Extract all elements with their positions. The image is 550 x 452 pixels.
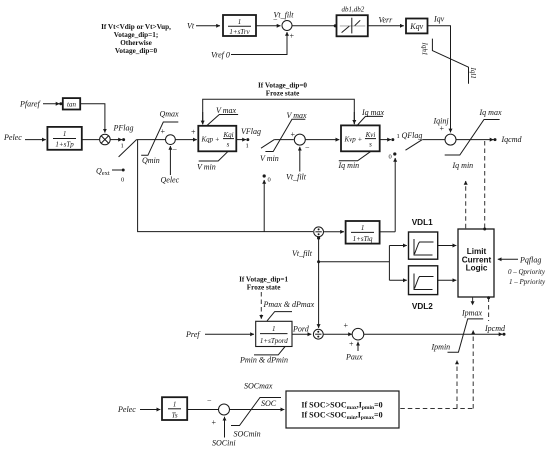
svg-text:Froze state: Froze state	[247, 284, 281, 292]
svg-text:0: 0	[121, 177, 124, 184]
svg-text:1: 1	[63, 130, 67, 138]
svg-text:−: −	[305, 143, 310, 152]
svg-text:Pmin & dPmin: Pmin & dPmin	[239, 356, 288, 365]
svg-text:Pelec: Pelec	[117, 405, 136, 414]
svg-text:Froze state: Froze state	[266, 90, 300, 98]
svg-text:V min: V min	[260, 154, 279, 163]
svg-text:−: −	[207, 396, 212, 405]
svg-text:Ipcmd: Ipcmd	[484, 324, 506, 333]
svg-text:db1,db2: db1,db2	[342, 6, 365, 14]
svg-text:Iq max: Iq max	[361, 108, 384, 117]
svg-text:+: +	[343, 321, 348, 330]
svg-text:Qmax: Qmax	[160, 110, 180, 119]
svg-text:1: 1	[272, 325, 276, 333]
svg-text:Vt: Vt	[187, 22, 195, 31]
svg-text:Vt_filt: Vt_filt	[286, 173, 307, 182]
svg-text:Qmin: Qmin	[142, 156, 160, 165]
svg-text:PFlag: PFlag	[113, 124, 134, 133]
svg-text:1: 1	[361, 224, 365, 232]
svg-text:Ipmax: Ipmax	[461, 308, 482, 317]
svg-text:1: 1	[238, 18, 242, 26]
svg-text:Kqv: Kqv	[409, 22, 423, 31]
svg-text:Iqcmd: Iqcmd	[501, 135, 523, 144]
svg-text:SOCmin: SOCmin	[234, 430, 261, 439]
svg-text:VDL1: VDL1	[412, 218, 433, 227]
svg-text:1+sTp: 1+sTp	[55, 141, 74, 149]
svg-text:1+sTrv: 1+sTrv	[229, 28, 250, 36]
svg-text:V max: V max	[216, 106, 237, 115]
svg-text:+: +	[439, 124, 444, 133]
svg-text:Pmax & dPmax: Pmax & dPmax	[263, 300, 315, 309]
svg-text:Iqh1: Iqh1	[421, 42, 429, 56]
svg-text:Pqflag: Pqflag	[519, 256, 541, 265]
svg-text:0: 0	[389, 154, 392, 161]
svg-text:Ipmin: Ipmin	[431, 343, 451, 352]
svg-text:Vt_filt: Vt_filt	[292, 249, 313, 258]
svg-text:+: +	[290, 130, 295, 139]
svg-text:0 – Qpriority: 0 – Qpriority	[508, 268, 546, 276]
svg-text:QFlag: QFlag	[402, 131, 423, 140]
svg-text:Iq min: Iq min	[452, 161, 474, 170]
svg-text:Pfaref: Pfaref	[19, 99, 41, 108]
svg-text:Verr: Verr	[379, 16, 394, 25]
svg-text:Kvi: Kvi	[365, 131, 376, 139]
svg-text:0: 0	[268, 177, 271, 184]
svg-text:1: 1	[397, 133, 400, 140]
svg-text:Kqp +: Kqp +	[201, 136, 220, 144]
svg-text:+: +	[349, 340, 354, 349]
svg-text:Votage_dip=0: Votage_dip=0	[115, 47, 158, 55]
svg-text:Qelec: Qelec	[161, 176, 180, 185]
svg-text:Kqi: Kqi	[222, 131, 233, 139]
svg-text:Pref: Pref	[185, 330, 201, 339]
svg-text:VDL2: VDL2	[412, 302, 433, 311]
svg-text:If Votage_dip=0: If Votage_dip=0	[258, 82, 307, 90]
svg-text:If Votage_dip=1: If Votage_dip=1	[239, 276, 288, 284]
svg-text:s: s	[227, 141, 230, 149]
svg-text:tan: tan	[67, 100, 76, 108]
svg-text:Kvp +: Kvp +	[344, 136, 363, 144]
svg-text:Pord: Pord	[292, 325, 310, 334]
svg-text:Iql1: Iql1	[469, 67, 477, 79]
svg-text:−: −	[273, 16, 278, 25]
svg-text:+: +	[191, 128, 196, 137]
svg-text:1 – Ppriority: 1 – Ppriority	[509, 278, 546, 286]
svg-text:1: 1	[173, 401, 177, 409]
svg-text:+: +	[289, 32, 294, 41]
svg-text:Iq min: Iq min	[338, 161, 360, 170]
svg-text:VFlag: VFlag	[241, 127, 261, 136]
svg-text:Iq max: Iq max	[479, 108, 502, 117]
svg-text:1+sTiq: 1+sTiq	[353, 235, 373, 243]
svg-text:Pelec: Pelec	[3, 133, 22, 142]
svg-text:Otherwise: Otherwise	[120, 39, 152, 47]
svg-text:SOCini: SOCini	[212, 439, 236, 448]
svg-text:Ts: Ts	[172, 412, 178, 420]
svg-text:V max: V max	[287, 111, 308, 120]
svg-text:−: −	[172, 146, 177, 155]
svg-text:SOCmax: SOCmax	[244, 382, 273, 391]
svg-text:s: s	[369, 141, 372, 149]
svg-text:Votage_dip=1;: Votage_dip=1;	[114, 31, 159, 39]
svg-text:1+sTpord: 1+sTpord	[260, 337, 288, 345]
svg-text:1: 1	[246, 143, 249, 150]
svg-text:If Vt<Vdip or Vt>Vup,: If Vt<Vdip or Vt>Vup,	[101, 23, 171, 31]
svg-text:Iqv: Iqv	[433, 15, 445, 24]
svg-text:Paux: Paux	[345, 353, 363, 362]
svg-text:1: 1	[121, 143, 124, 150]
svg-text:+: +	[211, 418, 216, 427]
svg-text:+: +	[160, 127, 165, 136]
svg-text:SOC: SOC	[261, 399, 277, 408]
svg-text:Vref 0: Vref 0	[211, 51, 230, 60]
svg-text:Logic: Logic	[466, 264, 488, 273]
svg-text:V min: V min	[197, 162, 216, 171]
